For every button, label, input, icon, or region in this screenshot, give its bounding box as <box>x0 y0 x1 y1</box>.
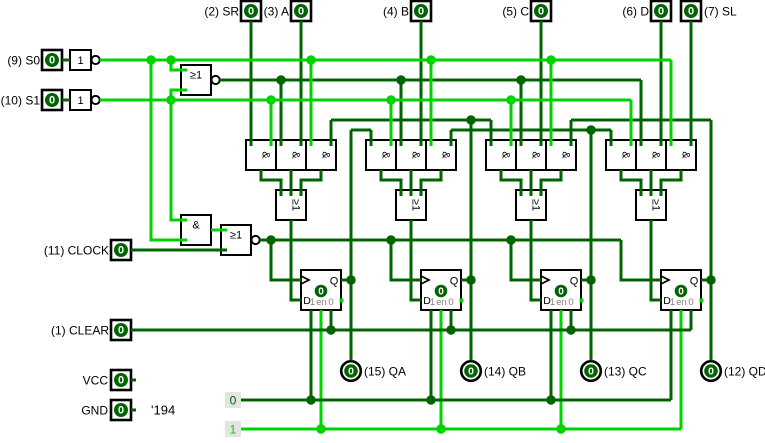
svg-text:0: 0 <box>49 55 55 67</box>
and-gate shift-right bit0 <box>246 140 276 170</box>
wire CLOCK to NOR2 <box>131 249 227 252</box>
flip-flop FF0 <box>301 270 344 310</box>
wire NOR1 output rail y=80 <box>220 79 641 82</box>
svg-text:(14) QB: (14) QB <box>484 365 526 379</box>
svg-text:(11) CLOCK: (11) CLOCK <box>44 244 109 258</box>
svg-text:(6) D: (6) D <box>622 5 649 19</box>
and-gate load bit1 <box>396 140 426 170</box>
or-gate mux bit1 <box>396 190 426 220</box>
wire enable tie bit1 <box>440 310 443 429</box>
wire sl-and out to or bit3 <box>661 170 681 196</box>
wire or out to D bit2 <box>531 220 541 300</box>
wire S0' select drop bit0 <box>306 55 315 146</box>
input pin (1) CLEAR <box>51 320 131 340</box>
input pin (3) A <box>264 1 311 21</box>
svg-text:0: 0 <box>49 95 55 107</box>
svg-text:VCC: VCC <box>83 374 109 388</box>
inverter NOT1 (S0) <box>70 50 100 70</box>
wire load select drop bit1 <box>396 75 405 146</box>
svg-text:0: 0 <box>118 325 124 337</box>
svg-text:'194: '194 <box>151 403 175 418</box>
svg-text:&: & <box>680 151 692 159</box>
wire A pin drop <box>300 21 303 146</box>
and-gate shift-right bit3 <box>606 140 636 170</box>
wire S0' select drop bit2 <box>546 55 555 146</box>
svg-text:0: 0 <box>348 366 354 378</box>
wire constant-0 rail y=400 <box>241 399 671 402</box>
input pin (2) SR <box>204 1 261 21</box>
output pin (15) QA <box>341 361 406 381</box>
svg-text:≥1: ≥1 <box>410 199 422 211</box>
wire gated clock rail y=240 <box>260 239 621 242</box>
svg-text:0: 0 <box>538 6 544 18</box>
svg-text:≥1: ≥1 <box>230 230 242 242</box>
output pin (13) QC <box>581 361 647 381</box>
and-gate shift-left bit0 <box>306 140 336 170</box>
wire clock tap bit3 <box>621 240 661 280</box>
svg-text:0: 0 <box>708 366 714 378</box>
wire load-and out to or bit3 <box>650 170 653 196</box>
wire S1' select drop bit1 <box>386 95 395 146</box>
and-gate shift-left bit1 <box>426 140 456 170</box>
svg-text:1: 1 <box>310 297 315 308</box>
wire CLEAR rail y=330 <box>131 329 691 332</box>
and-gate shift-left bit2 <box>546 140 576 170</box>
svg-text:0: 0 <box>318 286 324 297</box>
wire Q0 net <box>341 130 371 361</box>
junction enable bit2 <box>556 424 565 433</box>
output pin (12) QD <box>701 361 765 381</box>
input pin (10) S1 <box>1 90 62 110</box>
wire S0' select drop bit1 <box>426 55 435 146</box>
svg-text:(9) S0: (9) S0 <box>7 54 40 68</box>
svg-text:≥1: ≥1 <box>190 70 202 82</box>
svg-text:&: & <box>560 151 572 159</box>
wire load select drop bit2 <box>516 75 525 146</box>
wire enable tie bit3 <box>680 310 683 429</box>
svg-text:0: 0 <box>248 6 254 18</box>
svg-text:en: en <box>556 297 567 308</box>
input pin (5) C <box>502 1 551 21</box>
svg-text:0: 0 <box>118 405 124 417</box>
svg-text:1: 1 <box>230 423 237 437</box>
or-gate NOR1 (select decode) <box>181 65 220 95</box>
wire sr-and out to or bit3 <box>621 170 641 196</box>
svg-text:0: 0 <box>298 6 304 18</box>
svg-text:(1) CLEAR: (1) CLEAR <box>51 324 109 338</box>
wire B pin drop <box>420 21 423 146</box>
svg-text:&: & <box>620 151 632 159</box>
svg-text:0: 0 <box>118 375 124 387</box>
wire S1' rail y=100 <box>100 99 631 102</box>
wire sl-and out to or bit1 <box>421 170 441 196</box>
svg-text:(10) S1: (10) S1 <box>1 94 41 108</box>
input pin GND <box>81 400 136 420</box>
and-gate shift-right bit2 <box>486 140 516 170</box>
svg-text:0: 0 <box>448 297 453 308</box>
wire SR pin drop <box>250 21 253 146</box>
svg-text:&: & <box>650 151 662 159</box>
wire clear tie bit1 <box>446 310 455 335</box>
svg-text:0: 0 <box>688 297 693 308</box>
wire preset tie bit0 <box>306 310 315 405</box>
svg-text:0: 0 <box>568 297 573 308</box>
svg-text:≥1: ≥1 <box>290 199 302 211</box>
svg-text:&: & <box>530 151 542 159</box>
wire sr-and out to or bit1 <box>381 170 401 196</box>
wire Q2 net <box>451 125 611 360</box>
svg-text:0: 0 <box>588 366 594 378</box>
svg-text:en: en <box>436 297 447 308</box>
input pin (11) CLOCK <box>44 240 131 260</box>
and-gate G1 (clock gate) <box>181 215 211 245</box>
svg-text:(3) A: (3) A <box>264 5 289 19</box>
svg-text:en: en <box>316 297 327 308</box>
wire load-and out to or bit2 <box>530 170 533 196</box>
wire clear tie bit0 <box>326 310 335 335</box>
wire load-and out to or bit0 <box>290 170 293 196</box>
wire clock tap bit1 <box>386 235 421 280</box>
svg-text:&: & <box>440 151 452 159</box>
wire AND out to NOR2 <box>211 229 227 232</box>
wire S1' to AND top input <box>171 100 187 220</box>
and-gate shift-right bit1 <box>366 140 396 170</box>
svg-text:(5) C: (5) C <box>502 5 529 19</box>
wire Q3 net <box>571 120 716 361</box>
wire enable tie bit2 <box>560 310 563 429</box>
constant 1 <box>225 421 241 437</box>
or-gate mux bit2 <box>516 190 546 220</box>
flip-flop FF2 <box>541 270 584 310</box>
constant 0 <box>225 392 241 408</box>
svg-text:(2) SR: (2) SR <box>204 5 239 19</box>
or-gate mux bit3 <box>636 190 666 220</box>
flip-flop FF1 <box>421 270 464 310</box>
and-gate load bit0 <box>276 140 306 170</box>
svg-text:0: 0 <box>328 297 333 308</box>
svg-text:0: 0 <box>230 394 237 408</box>
svg-text:GND: GND <box>81 404 108 418</box>
wire D pin drop <box>660 21 663 146</box>
svg-text:(12) QD: (12) QD <box>724 365 765 379</box>
wire preset tie bit2 <box>546 310 555 405</box>
svg-text:en: en <box>676 297 687 308</box>
inverter NOT2 (S1) <box>70 90 100 110</box>
flip-flop FF3 <box>661 270 704 310</box>
wire preset tie bit3 <box>670 310 673 400</box>
wire S0' rail y=60 <box>100 59 671 62</box>
wire preset tie bit1 <box>426 310 435 405</box>
input pin VCC <box>83 370 136 390</box>
wire or out to D bit0 <box>291 220 301 300</box>
input pin (4) B <box>383 1 431 21</box>
svg-text:&: & <box>380 151 392 159</box>
svg-text:≥1: ≥1 <box>650 199 662 211</box>
svg-text:(13) QC: (13) QC <box>604 365 647 379</box>
junction enable bit0 <box>316 424 325 433</box>
wire NOR1 bottom input <box>166 90 187 105</box>
svg-text:0: 0 <box>468 366 474 378</box>
wire Q1 net <box>331 115 491 360</box>
and-gate shift-left bit3 <box>666 140 696 170</box>
wire or out to D bit1 <box>411 220 421 300</box>
wire S1' select drop bit2 <box>506 95 515 146</box>
wire load-and out to or bit1 <box>410 170 413 196</box>
wire S0' to AND bottom input <box>146 55 187 240</box>
wire S1' select drop bit0 <box>266 95 275 146</box>
or-gate mux bit0 <box>276 190 306 220</box>
svg-text:1: 1 <box>670 297 675 308</box>
wire load select drop bit3 <box>640 80 643 146</box>
and-gate load bit2 <box>516 140 546 170</box>
junction enable bit1 <box>436 424 445 433</box>
svg-text:1: 1 <box>550 297 555 308</box>
wire clock tap bit0 <box>266 235 301 280</box>
wire sr-and out to or bit2 <box>501 170 521 196</box>
svg-text:0: 0 <box>678 286 684 297</box>
wire clock tap bit2 <box>506 235 541 280</box>
svg-text:Q: Q <box>570 276 579 288</box>
svg-text:&: & <box>410 151 422 159</box>
svg-text:≥1: ≥1 <box>530 199 542 211</box>
wire or out to D bit3 <box>651 220 661 300</box>
svg-text:1: 1 <box>77 95 83 107</box>
svg-text:&: & <box>320 151 332 159</box>
svg-text:&: & <box>500 151 512 159</box>
svg-text:1: 1 <box>430 297 435 308</box>
wire S0' select drop bit3 <box>670 60 673 146</box>
svg-text:0: 0 <box>658 6 664 18</box>
wire S1 to inverter <box>62 99 70 102</box>
wire sl-and out to or bit2 <box>541 170 561 196</box>
wire SL pin drop <box>690 21 693 146</box>
wire sr-and out to or bit0 <box>261 170 281 196</box>
svg-text:Q: Q <box>450 276 459 288</box>
svg-text:0: 0 <box>418 6 424 18</box>
svg-text:Q: Q <box>330 276 339 288</box>
svg-text:Q: Q <box>690 276 699 288</box>
svg-text:&: & <box>260 151 272 159</box>
svg-text:0: 0 <box>118 245 124 257</box>
svg-text:0: 0 <box>558 286 564 297</box>
wire C pin drop <box>540 21 543 146</box>
wire clear tie bit3 <box>690 310 693 330</box>
svg-text:&: & <box>192 220 200 232</box>
svg-text:(7) SL: (7) SL <box>704 5 737 19</box>
input pin (6) D <box>622 1 671 21</box>
wire S1' select drop bit3 <box>630 100 633 146</box>
wire sl-and out to or bit0 <box>301 170 321 196</box>
text '194 <box>151 403 175 418</box>
wire constant-1 rail y=429 <box>241 428 681 431</box>
svg-text:0: 0 <box>688 6 694 18</box>
svg-text:(15) QA: (15) QA <box>364 365 406 379</box>
wire enable tie bit0 <box>320 310 323 429</box>
wire S0 to inverter <box>62 59 70 62</box>
output pin (14) QB <box>461 361 526 381</box>
and-gate load bit3 <box>636 140 666 170</box>
svg-text:(4) B: (4) B <box>383 5 409 19</box>
svg-text:1: 1 <box>77 55 83 67</box>
svg-text:&: & <box>290 151 302 159</box>
wire NOR1 top input <box>166 55 187 70</box>
or-gate NOR2 (clock) <box>221 225 260 255</box>
input pin (7) SL <box>681 1 737 21</box>
input pin (9) S0 <box>7 50 62 70</box>
svg-text:0: 0 <box>438 286 444 297</box>
wire clear tie bit2 <box>566 310 575 335</box>
wire load select drop bit0 <box>276 75 285 146</box>
